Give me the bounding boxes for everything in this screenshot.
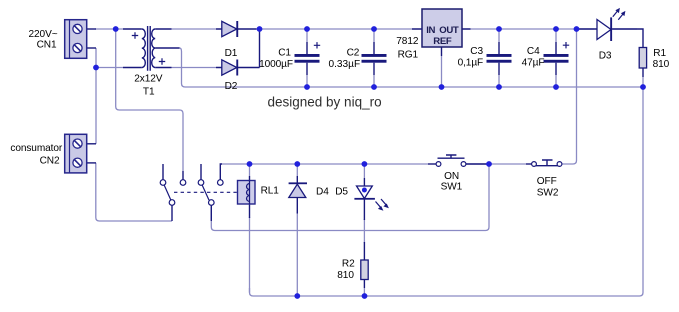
svg-text:RL1: RL1 — [261, 186, 280, 197]
svg-text:D4: D4 — [316, 187, 329, 198]
svg-text:D5: D5 — [335, 187, 348, 198]
svg-text:0,1µF: 0,1µF — [458, 58, 484, 69]
svg-text:7812: 7812 — [396, 36, 419, 47]
svg-text:IN: IN — [426, 25, 435, 36]
svg-text:consumator: consumator — [10, 143, 62, 154]
svg-text:SW2: SW2 — [537, 187, 559, 198]
svg-text:CN2: CN2 — [40, 156, 60, 167]
svg-text:810: 810 — [653, 59, 670, 70]
svg-text:SW1: SW1 — [441, 181, 463, 192]
svg-text:C1: C1 — [278, 48, 291, 59]
svg-text:RG1: RG1 — [398, 50, 419, 61]
svg-text:R2: R2 — [342, 259, 355, 270]
svg-text:OFF: OFF — [537, 176, 557, 187]
svg-text:CN1: CN1 — [37, 40, 57, 51]
svg-text:T1: T1 — [143, 87, 155, 98]
svg-text:C2: C2 — [347, 48, 360, 59]
svg-text:R1: R1 — [653, 48, 666, 59]
svg-text:810: 810 — [337, 270, 354, 281]
svg-text:OUT: OUT — [439, 25, 459, 36]
svg-text:1000µF: 1000µF — [259, 59, 293, 70]
svg-text:C4: C4 — [527, 46, 540, 57]
svg-text:D2: D2 — [225, 81, 238, 92]
svg-text:0.33µF: 0.33µF — [329, 59, 361, 70]
svg-text:220V~: 220V~ — [29, 29, 58, 40]
svg-text:C3: C3 — [470, 46, 483, 57]
svg-text:2x12V: 2x12V — [134, 73, 162, 84]
svg-text:D1: D1 — [225, 48, 238, 59]
svg-text:D3: D3 — [599, 50, 612, 61]
svg-text:47µF: 47µF — [522, 58, 545, 69]
svg-text:designed by niq_ro: designed by niq_ro — [268, 95, 382, 110]
svg-text:REF: REF — [433, 36, 452, 47]
